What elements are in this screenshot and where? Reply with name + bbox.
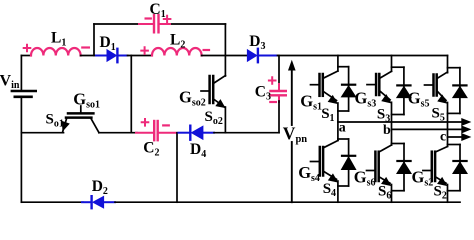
wire: phase a line — [338, 121, 463, 123]
diode D1 — [96, 49, 128, 62]
wire: leg2 lower jog — [392, 143, 405, 145]
wire: leg1 emitter to bottom rail — [337, 181, 339, 202]
diode leg3 lower — [453, 161, 467, 174]
wire: phase c line — [448, 136, 464, 138]
svg-text:S2: S2 — [434, 184, 447, 202]
diode leg2 lower — [397, 161, 411, 174]
wire: leg1 lower jog — [338, 138, 349, 140]
wire: leg1 upper diode vertical — [348, 67, 350, 111]
label Gso1 — [73, 89, 100, 110]
label L1 plus — [24, 45, 31, 52]
wire: So1 to C2 — [99, 132, 137, 134]
label S6 — [378, 184, 391, 202]
capacitor C2 — [136, 121, 176, 140]
label D4 — [190, 141, 206, 160]
diode D3 — [247, 49, 277, 62]
capacitor C3 — [271, 84, 286, 102]
inductor L1 — [31, 48, 81, 56]
label Gso2 — [179, 87, 206, 108]
label node c — [440, 130, 446, 145]
svg-text:D2: D2 — [92, 178, 108, 197]
wire: leg3 lower jog — [448, 144, 461, 146]
wire: C3 branch upper vertical — [278, 56, 280, 86]
svg-text:C1: C1 — [150, 1, 166, 20]
node Vpn measurement arrow — [289, 61, 295, 202]
wire: leg3 emitter to bottom rail — [447, 185, 449, 203]
wire: leg3 emitter vertical down through phase c — [447, 103, 449, 147]
svg-text:C2: C2 — [143, 139, 159, 158]
transistor S2 (IGBT) — [423, 147, 448, 186]
label C1 — [150, 1, 166, 20]
label Gs1 — [300, 91, 322, 112]
wire: left rail lower — [20, 98, 22, 202]
label L2 minus — [204, 49, 209, 51]
phase c arrowhead — [462, 134, 470, 141]
label L2 — [170, 31, 185, 50]
wire: bottom rail left of D2 — [21, 201, 83, 203]
label C3 minus — [270, 101, 276, 103]
label D3 — [249, 33, 265, 52]
phase a arrowhead — [462, 119, 470, 126]
phase b arrowhead — [462, 126, 470, 133]
transistor S6 (IGBT) — [367, 145, 392, 185]
wire: leg1 lower diode bottom jog — [338, 185, 349, 187]
svg-text:Vin: Vin — [0, 73, 20, 91]
label C3 — [255, 84, 271, 103]
svg-text:Gso1: Gso1 — [73, 89, 100, 110]
wire: D3 to inverter top rail — [278, 55, 448, 57]
wire: left rail upper (to battery) — [20, 56, 22, 90]
wire: C1 top run right segment — [169, 23, 225, 25]
label node b — [383, 123, 391, 138]
svg-text:Gs3: Gs3 — [355, 88, 377, 109]
label So1 — [46, 111, 64, 129]
transistor S1 (IGBT) — [311, 71, 338, 103]
svg-text:D1: D1 — [100, 34, 116, 53]
label S5 — [432, 106, 445, 124]
label C1 plus — [164, 16, 171, 23]
wire: L1 to D1 — [81, 55, 97, 57]
label Gs2 — [412, 168, 434, 189]
transistor S4 (IGBT) — [311, 141, 338, 182]
wire: leg2 upper diode vertical — [403, 67, 405, 114]
transistor So1 (IGBT) — [62, 106, 99, 133]
wire: leg1 emitter vertical down through phase a — [337, 103, 339, 141]
svg-text:Vpn: Vpn — [283, 124, 307, 146]
diode D4 (pointing left) — [179, 126, 215, 140]
svg-text:So1: So1 — [46, 111, 64, 129]
label Gs6 — [354, 168, 376, 189]
wire: leg3 lower diode bottom jog — [448, 190, 461, 192]
svg-text:L2: L2 — [170, 31, 185, 50]
wire: leg2 emitter to bottom rail — [391, 185, 393, 203]
transistor S5 (IGBT) — [425, 72, 448, 103]
wire: leg2 lower diode bottom jog — [392, 190, 405, 192]
label S3 — [377, 106, 390, 124]
wire: leg2 emitter vertical down through phase b — [391, 102, 393, 145]
label L1 — [51, 29, 66, 48]
transistor S3 (IGBT) — [367, 71, 392, 102]
wire: leg3 upper jog — [448, 67, 460, 69]
svg-text:Gs5: Gs5 — [408, 88, 430, 109]
battery Vin bottom plate — [15, 96, 32, 99]
label S4 — [323, 181, 336, 199]
wire: leg2 lower diode vertical — [403, 144, 405, 191]
capacitor C1 — [139, 15, 170, 32]
wire: leg2 upper jog2 — [392, 114, 404, 116]
wire: leg3 lower diode vertical — [459, 145, 461, 191]
label C2 plus — [142, 119, 149, 126]
label S2 — [434, 184, 447, 202]
svg-text:C3: C3 — [255, 84, 271, 103]
wire: D4 to Vpn corner — [214, 132, 279, 134]
wire: leg2 collector vertical from rail — [391, 56, 393, 72]
svg-text:S4: S4 — [323, 181, 336, 199]
svg-text:c: c — [440, 130, 446, 145]
diode leg3 upper — [453, 85, 467, 97]
label C2 minus — [163, 124, 169, 126]
label C1 minus — [146, 17, 151, 19]
diode leg1 lower — [342, 156, 356, 170]
wire: So2 emitter vertical — [224, 107, 226, 133]
label So2 — [205, 109, 223, 127]
svg-text:S1: S1 — [321, 106, 334, 124]
label L2 plus — [141, 47, 148, 54]
wire: leg2 upper jog — [392, 66, 404, 68]
inductor L2 — [152, 48, 202, 55]
svg-text:Gs4: Gs4 — [298, 163, 320, 184]
wire: leg1 collector vertical from rail — [337, 56, 339, 72]
wire: leg3 upper jog2 — [448, 112, 460, 114]
label Vpn — [283, 124, 307, 146]
wire: So2 collector vertical from C1 run — [224, 24, 226, 76]
label Vin — [0, 73, 20, 91]
wire: D1 to L2 with node at x=131 — [128, 55, 153, 57]
label node a — [339, 121, 346, 136]
battery Vin top plate — [12, 90, 36, 93]
wire: C3 branch lower vertical to middle run — [278, 101, 280, 133]
svg-text:S6: S6 — [378, 184, 391, 202]
label Gs5 — [408, 88, 430, 109]
wire: C2 branch vertical at x=131 — [130, 56, 132, 133]
diode leg2 upper — [397, 85, 411, 97]
wire: leg3 upper diode vertical — [459, 68, 461, 114]
svg-text:L1: L1 — [51, 29, 66, 48]
label D1 — [100, 34, 116, 53]
svg-text:b: b — [383, 123, 391, 138]
label C3 plus — [269, 77, 276, 84]
wire: leg1 upper jog to diode — [338, 66, 349, 68]
wire: C1 branch vertical at x=94 — [93, 24, 95, 56]
wire: L2 to D3 — [202, 55, 247, 57]
wire: leg1 upper jog2 — [338, 110, 349, 112]
label Gs4 — [298, 163, 320, 184]
wire: leg3 collector vertical from rail corner — [447, 56, 449, 73]
wire: bottom rail right of D2 — [115, 201, 460, 203]
wire: top-left stub from left rail to L1 — [21, 55, 31, 57]
diode D2 (pointing left) — [82, 196, 115, 208]
label C2 — [143, 139, 159, 158]
diode leg1 upper (antiparallel) — [342, 85, 356, 97]
svg-text:S5: S5 — [432, 106, 445, 124]
svg-text:a: a — [339, 121, 346, 136]
wire: vertical from C2/D4 node down to bottom rail — [176, 133, 178, 203]
transistor So2 (IGBT) — [201, 76, 225, 108]
wire: leg1 lower diode vertical — [348, 139, 350, 186]
wire: middle run from left rail to So1 — [21, 132, 63, 134]
wire: phase b line — [392, 128, 464, 130]
svg-text:D4: D4 — [190, 141, 206, 160]
wire: C1 top run left segment — [94, 23, 139, 25]
label Gs3 — [355, 88, 377, 109]
label S1 — [321, 106, 334, 124]
svg-text:D3: D3 — [249, 33, 265, 52]
label L1 minus — [82, 46, 89, 48]
svg-text:So2: So2 — [205, 109, 223, 127]
label D2 — [92, 178, 108, 197]
